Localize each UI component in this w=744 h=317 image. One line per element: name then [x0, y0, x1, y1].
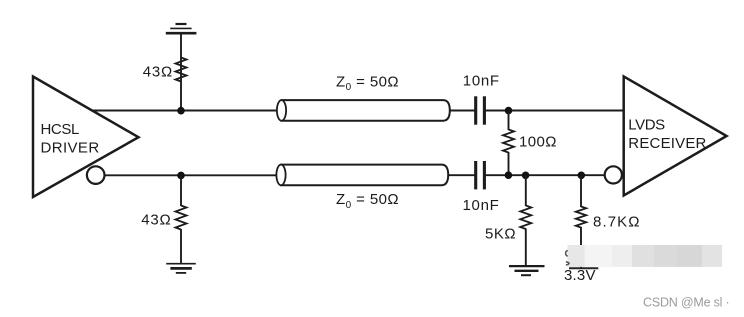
svg-text:10nF: 10nF [463, 73, 500, 90]
node F junction dot (8.7K branch) [578, 172, 586, 180]
capacitor C1 10nF (top, series) [476, 96, 485, 124]
watermark blur patch band 5 [654, 245, 676, 267]
node C junction dot (top line, right) [505, 107, 513, 115]
wire: HCSL OUT+ to transmission line T1 [91, 110, 278, 112]
svg-text:5KΩ: 5KΩ [485, 225, 516, 242]
svg-text:HCSL: HCSL [41, 121, 79, 138]
inversion bubble on LVDS input [605, 166, 622, 183]
op-amp U2 LVDS receiver triangle [624, 76, 727, 195]
svg-text:CSDN @Me sl ·: CSDN @Me sl · [643, 295, 729, 309]
svg-text:3.3V: 3.3V [564, 267, 596, 284]
wire: capacitor C1 to LVDS IN+ [486, 110, 624, 112]
svg-text:RECEIVER: RECEIVER [628, 135, 706, 152]
svg-text:Z0 = 50Ω: Z0 = 50Ω [336, 191, 399, 211]
watermark blur patch band 6 [676, 245, 702, 267]
ground (inverted, top) [166, 24, 197, 33]
resistor R3 100ohm (termination between lines) [503, 130, 514, 153]
resistor R5 8.7Kohm [576, 207, 586, 228]
node A junction dot (top line, left) [177, 107, 185, 115]
ground (bottom left) [166, 264, 196, 273]
wire: resistor R3 bottom lead to node D [508, 152, 510, 175]
op-amp U1 HCSL driver triangle [33, 77, 139, 198]
wire: resistor R4 bottom lead to ground [525, 229, 527, 267]
svg-text:Z0 = 50Ω: Z0 = 50Ω [336, 73, 399, 93]
wire: stem node A up to resistor R1 [180, 58, 182, 111]
transmission line T2 (bottom, Z0 = 50 ohm) [276, 165, 448, 186]
node B junction dot (bottom line, left) [177, 172, 185, 180]
glyph fragment at watermark left edge [566, 251, 570, 265]
svg-text:100Ω: 100Ω [519, 134, 557, 151]
power rail bar 3.3V [569, 267, 598, 269]
wire: resistor R1 top lead to ground [180, 33, 182, 58]
svg-text:DRIVER: DRIVER [41, 139, 100, 156]
watermark blur patch band 3 [612, 245, 632, 267]
transmission line T1 (top, Z0 = 50 ohm) [277, 100, 450, 121]
ground (bottom right, under 5K) [509, 266, 545, 275]
svg-text:43Ω: 43Ω [141, 211, 171, 228]
wire: node E down to resistor R4 [525, 175, 527, 206]
resistor R2 43ohm (bottom left) [176, 206, 187, 230]
wire: T2 to capacitor C2 [448, 174, 475, 176]
wire: stem node B down to resistor R2 [180, 175, 182, 206]
watermark blur patch band 2 [585, 245, 612, 267]
wire: capacitor C2 to LVDS IN- bubble [486, 174, 606, 176]
watermark blur patch band 1 [568, 245, 585, 267]
node E junction dot (5K branch) [522, 172, 530, 180]
watermark blur patch band 4 [632, 245, 654, 267]
resistor R4 5Kohm [520, 206, 531, 230]
svg-text:10nF: 10nF [463, 197, 500, 214]
wire: T1 to capacitor C1 [450, 110, 475, 112]
wire: node F down to resistor R5 [580, 175, 582, 207]
node D junction dot (100 ohm to bottom line) [505, 171, 513, 179]
resistor R1 43ohm (top) [176, 58, 187, 82]
watermark blur patch band 7 [702, 245, 722, 267]
wire: HCSL OUT- bubble to transmission line T2 [104, 174, 277, 176]
svg-text:43Ω: 43Ω [143, 64, 173, 81]
svg-text:8.7KΩ: 8.7KΩ [593, 213, 641, 230]
wire: node C down to resistor R3 [508, 111, 510, 130]
wire: resistor R2 bottom lead to ground [180, 229, 182, 264]
wire: resistor R5 bottom lead to 3.3V rail [580, 227, 582, 268]
label HCSL DRIVER [41, 121, 100, 156]
svg-text:LVDS: LVDS [628, 116, 665, 133]
label LVDS RECEIVER [628, 116, 706, 152]
capacitor C2 10nF (bottom, series) [476, 161, 485, 189]
inversion bubble on HCSL output [87, 166, 105, 184]
